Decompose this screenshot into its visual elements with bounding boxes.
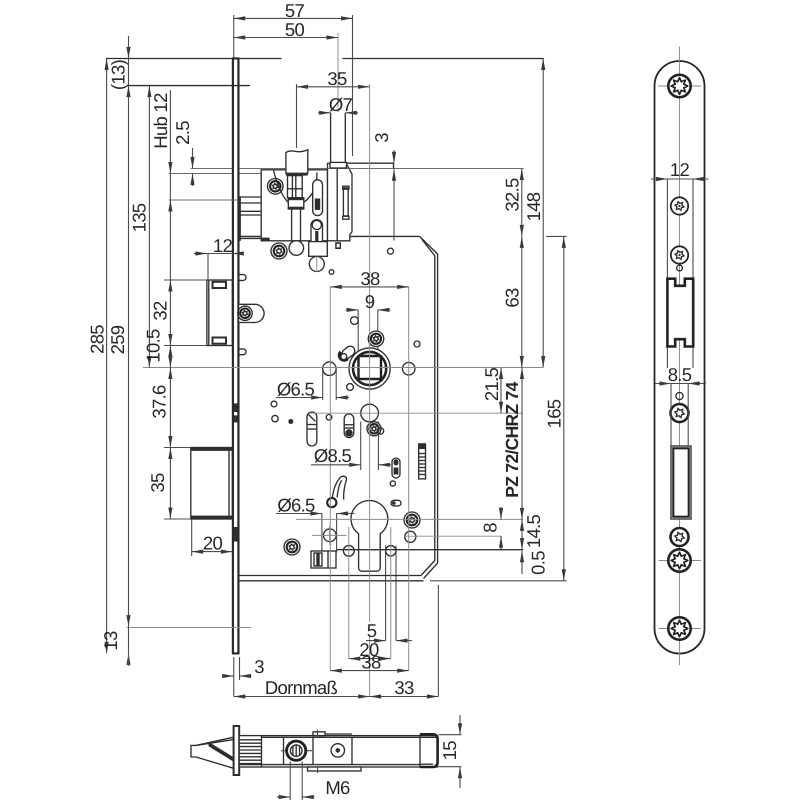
- svg-text:135: 135: [129, 203, 150, 232]
- svg-text:35: 35: [147, 473, 168, 493]
- svg-text:Ø6.5: Ø6.5: [277, 378, 315, 399]
- svg-text:285: 285: [87, 325, 108, 354]
- svg-text:37.6: 37.6: [149, 385, 170, 419]
- svg-text:2.5: 2.5: [172, 121, 193, 145]
- svg-text:38: 38: [361, 652, 381, 673]
- svg-text:Dornmaß: Dornmaß: [265, 677, 338, 698]
- svg-text:9: 9: [365, 291, 375, 312]
- svg-text:57: 57: [285, 0, 305, 21]
- svg-text:8.5: 8.5: [668, 364, 692, 385]
- svg-text:3: 3: [371, 133, 392, 143]
- svg-text:148: 148: [523, 192, 544, 221]
- svg-text:259: 259: [107, 325, 128, 354]
- svg-text:13: 13: [100, 631, 121, 651]
- svg-text:3: 3: [254, 656, 264, 677]
- svg-text:38: 38: [360, 268, 380, 289]
- svg-text:Hub 12: Hub 12: [150, 93, 171, 149]
- svg-text:165: 165: [543, 399, 564, 428]
- svg-text:63: 63: [501, 288, 522, 308]
- svg-text:Ø7: Ø7: [329, 94, 353, 115]
- svg-text:(13): (13): [108, 59, 129, 90]
- svg-text:21.5: 21.5: [481, 367, 502, 401]
- svg-text:Ø8.5: Ø8.5: [314, 445, 352, 466]
- svg-text:12: 12: [213, 235, 233, 256]
- svg-text:10.5: 10.5: [143, 329, 164, 363]
- svg-text:14.5: 14.5: [523, 514, 544, 548]
- svg-text:8: 8: [480, 523, 501, 533]
- svg-text:20: 20: [203, 533, 223, 554]
- svg-text:15: 15: [439, 741, 460, 761]
- svg-text:35: 35: [327, 68, 347, 89]
- svg-text:0.5: 0.5: [528, 551, 549, 575]
- svg-text:50: 50: [285, 19, 305, 40]
- svg-text:12: 12: [670, 159, 690, 180]
- svg-text:Ø6.5: Ø6.5: [277, 495, 315, 516]
- svg-text:M6: M6: [325, 777, 350, 798]
- svg-text:5: 5: [367, 620, 377, 641]
- svg-text:33: 33: [394, 677, 414, 698]
- svg-text:32.5: 32.5: [501, 178, 522, 212]
- svg-text:PZ 72/CHRZ 74: PZ 72/CHRZ 74: [502, 381, 522, 497]
- svg-text:32: 32: [150, 301, 171, 321]
